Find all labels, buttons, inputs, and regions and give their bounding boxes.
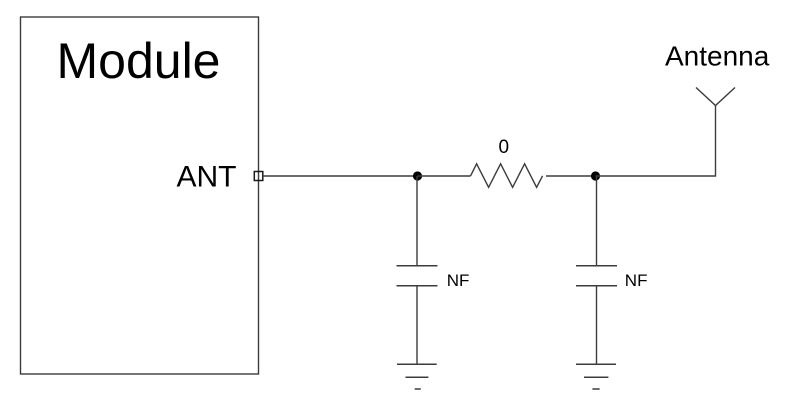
svg-text:Antenna: Antenna [665,41,770,72]
svg-text:NF: NF [447,271,470,290]
svg-text:NF: NF [625,271,648,290]
ground 2 [576,363,616,365]
capacitor C2 plates [576,265,617,267]
svg-text:Module: Module [57,33,221,89]
svg-text:ANT: ANT [177,160,237,193]
wire node 1 to capacitor C1 [416,176,418,266]
svg-text:0: 0 [499,137,510,158]
antenna symbol [696,88,735,106]
ground 1 [397,363,437,365]
pin ANT terminal square [254,172,262,181]
module U1 box [21,17,259,374]
wire pin ANT to node 1 [263,175,418,177]
wire capacitor C2 to ground [596,286,598,365]
wire capacitor C1 to ground [416,286,418,365]
wire resistor R1 to node 2 [546,175,596,177]
wire node 2 to capacitor C2 [596,176,598,266]
resistor R1 zigzag [471,164,543,188]
wire node 2 to antenna corner [596,106,716,177]
node junction 2 [591,171,600,180]
wire node 1 to resistor R1 [418,175,471,177]
node junction 1 [413,171,422,180]
capacitor C1 plates [397,265,438,267]
